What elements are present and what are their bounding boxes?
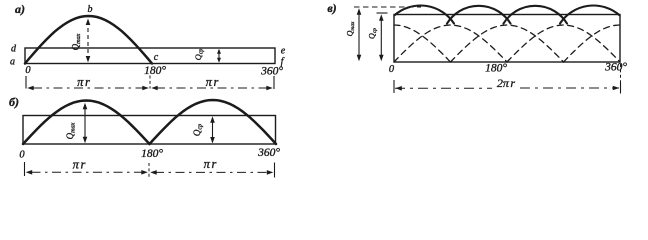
svg-text:в): в) [327, 1, 336, 15]
svg-text:d: d [11, 44, 17, 55]
svg-text:а): а) [15, 2, 25, 16]
svg-text:180°: 180° [144, 65, 166, 77]
svg-text:πr: πr [77, 75, 90, 89]
svg-text:Qcp: Qcp [192, 124, 204, 136]
svg-text:0: 0 [25, 65, 31, 76]
svg-text:πr: πr [204, 157, 217, 171]
svg-text:c: c [154, 52, 159, 63]
svg-text:0: 0 [19, 150, 25, 161]
svg-text:Qmax: Qmax [65, 122, 77, 139]
svg-text:b: b [88, 4, 93, 15]
svg-text:360°: 360° [260, 66, 283, 78]
svg-text:180°: 180° [141, 148, 163, 160]
svg-text:0: 0 [389, 64, 395, 75]
svg-text:2πr: 2πr [497, 76, 516, 90]
svg-text:Qcp: Qcp [193, 49, 205, 61]
svg-text:Qmax: Qmax [71, 33, 83, 50]
svg-text:πr: πr [206, 75, 219, 89]
svg-text:б): б) [9, 95, 19, 109]
svg-text:360°: 360° [604, 62, 627, 74]
svg-text:180°: 180° [485, 63, 507, 75]
svg-text:360°: 360° [257, 147, 280, 159]
svg-text:a: a [10, 57, 15, 68]
svg-text:e: e [281, 46, 286, 57]
svg-text:πr: πr [73, 158, 86, 172]
svg-text:Qcp: Qcp [368, 28, 379, 39]
svg-text:Qmax: Qmax [346, 21, 357, 36]
